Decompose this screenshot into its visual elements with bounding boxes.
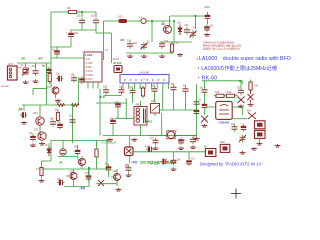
svg-text:100: 100 — [118, 15, 123, 19]
svg-text:JP→: JP→ — [59, 161, 65, 165]
wire U2 pin 4 stub — [139, 83, 141, 89]
wire U2 pin 7 stub — [156, 83, 158, 89]
ground g2 — [141, 55, 147, 58]
capacitor C24c electrolytic — [194, 110, 200, 112]
wire stub down crystal — [25, 63, 27, 67]
svg-text:4 VCC: 4 VCC — [86, 70, 93, 73]
capacitor C16 — [70, 120, 76, 122]
svg-text:JP2: JP2 — [120, 38, 125, 42]
origin marker — [231, 189, 241, 199]
capacitor C21 — [171, 87, 177, 89]
capacitor C27 — [238, 90, 244, 92]
capacitor C42 electrolytic — [186, 160, 192, 162]
wire C3b bottom — [56, 56, 58, 58]
capacitor C6 electrolytic — [205, 15, 211, 17]
svg-text:104: 104 — [103, 87, 108, 89]
junction y16 x195 — [194, 15, 196, 17]
ground below Q4 — [39, 142, 45, 145]
ground c39 — [178, 147, 184, 150]
ground x196 end — [194, 137, 200, 140]
svg-text:10u: 10u — [19, 109, 24, 111]
capacitor C17 — [103, 90, 109, 92]
ground under C36 — [126, 174, 132, 177]
svg-text:LA16: LA16 — [85, 53, 93, 57]
wire Q3 collector — [39, 105, 41, 117]
wire T1 bottom — [140, 125, 142, 136]
svg-text:104: 104 — [133, 41, 138, 45]
svg-text:VOL 50kΩ(A): VOL 50kΩ(A) — [101, 141, 117, 145]
resistor R9 — [216, 94, 224, 97]
junction y21 x174 — [173, 20, 175, 22]
ground BFO left — [202, 124, 208, 127]
wire vertical x100 — [99, 89, 101, 136]
wire C3b top — [56, 47, 58, 49]
svg-text:10u: 10u — [56, 74, 61, 76]
wire U2 pin 1 stub — [122, 83, 124, 89]
resistor R6 — [141, 88, 144, 96]
capacitor C37 electrolytic — [148, 147, 150, 153]
wire y16 to supply — [206, 15, 208, 17]
svg-text:PH: PH — [18, 68, 21, 70]
wire C34 top — [88, 169, 90, 174]
svg-text:1SS: 1SS — [177, 23, 182, 25]
capacitor C7 — [184, 30, 190, 32]
svg-text:↓LA1600 double super radio wit: ↓LA1600 double super radio with BFO — [196, 56, 291, 62]
wire speaker out rail — [133, 151, 205, 153]
svg-text:JP-20A: JP-20A — [113, 62, 122, 65]
wire stub x154 down — [154, 93, 156, 101]
wire BFO right column — [241, 81, 243, 84]
wire filter out — [232, 106, 242, 108]
diode D1 — [178, 25, 182, 36]
resistor R2v — [48, 74, 51, 82]
svg-text:103: 103 — [237, 88, 242, 90]
svg-text:104: 104 — [74, 31, 79, 35]
wire y169 rail — [42, 168, 108, 170]
svg-text:LA1600: LA1600 — [139, 71, 150, 75]
capacitor C20 — [152, 89, 158, 91]
wire vertical x126 — [125, 98, 127, 118]
capacitor C11 electrolytic — [58, 76, 60, 82]
svg-text:10k: 10k — [215, 90, 220, 94]
ground under D2 — [248, 103, 254, 106]
svg-text:♪PO: ♪PO — [131, 161, 138, 165]
diode D4 — [98, 180, 104, 186]
svg-text:104: 104 — [152, 86, 157, 88]
wire BFO top rail — [202, 80, 242, 82]
svg-text:472: 472 — [150, 138, 155, 140]
capacitor C40 — [190, 139, 196, 141]
svg-text:?: ? — [143, 78, 145, 82]
wire x78 vertical — [77, 77, 79, 105]
ground below X1 — [23, 81, 29, 84]
wire x195 down — [195, 16, 197, 29]
wire T1 top stub — [140, 101, 142, 107]
wire U1 stub b — [92, 82, 94, 89]
wire U2 pin 2 stub — [128, 83, 130, 89]
capacitor C41 — [171, 160, 177, 162]
svg-text:223: 223 — [171, 84, 176, 86]
junction y104 x196 — [195, 103, 197, 105]
svg-text:X1: X1 — [199, 100, 203, 102]
svg-text:JP-IF: JP-IF — [99, 96, 106, 99]
connector JP7 — [220, 144, 230, 152]
wire stub to C1 — [81, 12, 83, 17]
svg-text:+: + — [199, 104, 201, 106]
wire below C3 — [70, 39, 72, 48]
transformer T3 — [167, 131, 174, 138]
svg-text:47u: 47u — [210, 26, 215, 28]
svg-text:2SC: 2SC — [47, 87, 52, 89]
wire T3 left — [148, 135, 167, 137]
wire horizontal y103 — [96, 102, 127, 104]
svg-text:♪PO: ♪PO — [79, 187, 86, 191]
resistor R8 — [249, 82, 252, 90]
wire vertical x103 — [103, 21, 105, 60]
junction y12 x82 — [81, 11, 83, 13]
svg-text:6 OUT: 6 OUT — [86, 78, 94, 81]
filter U3 CSB455 — [216, 101, 233, 119]
svg-text:2 OSC: 2 OSC — [86, 62, 93, 65]
trimmer VC5 crossed — [238, 97, 245, 104]
wire horizontal y118 — [115, 117, 134, 119]
svg-text:10k: 10k — [254, 86, 259, 88]
junction BFO rail — [239, 80, 241, 82]
wire Q5a base — [77, 157, 79, 161]
wire U2 pin 5 stub — [145, 83, 147, 89]
transistor Q5 first AF — [79, 159, 86, 166]
svg-text:短波帯で使うには上々の感度かと.: 短波帯で使うには上々の感度かと. — [203, 47, 242, 51]
capacitor C32 electrolytic — [75, 150, 81, 152]
junction at x152 — [151, 20, 153, 22]
wire Q2 base — [51, 85, 52, 87]
wire supply top — [207, 12, 209, 15]
connector J1 — [8, 66, 18, 80]
ground below C13 — [21, 121, 27, 124]
resistor R12 — [95, 149, 98, 157]
capacitor C1 — [79, 20, 85, 22]
capacitor C26 electrolytic — [202, 104, 208, 106]
capacitor C24 electrolytic — [110, 120, 116, 122]
svg-text:T: T — [176, 131, 178, 133]
wire stub x173 down — [173, 92, 175, 111]
ground below Q2 — [55, 99, 61, 102]
svg-text:JP-2A: JP-2A — [113, 58, 120, 61]
wire audio top rail — [51, 140, 107, 142]
capacitor C33 electrolytic — [59, 180, 61, 186]
ground under Q7 — [116, 188, 122, 191]
svg-text:1 IN: 1 IN — [86, 58, 91, 61]
speaker jack J2 — [125, 147, 134, 156]
wire filter out v — [241, 107, 243, 115]
wire horizontal y135 — [103, 135, 197, 137]
junction audio rail2 — [88, 167, 90, 169]
wire Q7 collector — [116, 169, 118, 174]
wire horizontal y16 — [170, 15, 206, 17]
wire Q1 collector up — [169, 16, 171, 26]
wire y105 rail — [22, 104, 78, 106]
capacitor C13 electrolytic — [22, 112, 24, 118]
svg-text:103: 103 — [200, 88, 205, 90]
transistor Q7 output — [114, 174, 121, 181]
wire horizontal to RF amp — [51, 46, 71, 48]
junction y88 x72 — [71, 104, 73, 106]
capacitor C19 — [130, 90, 136, 92]
svg-text:103: 103 — [77, 16, 82, 18]
svg-text:10k: 10k — [227, 90, 232, 94]
svg-text:2SC: 2SC — [161, 24, 166, 26]
svg-text:Designed by "RADIO KITS IN: Designed by "RADIO KITS IN JA" — [200, 162, 263, 167]
capacitor C29 — [232, 127, 238, 129]
ground under C31 — [30, 144, 36, 147]
wire C35 bottom — [108, 172, 110, 177]
wire down to jumper — [111, 33, 113, 63]
wire into LA1600 block — [51, 57, 84, 59]
capacitor C25 — [202, 90, 208, 92]
capacitor C38 — [153, 140, 159, 142]
ground bottom 2 — [275, 144, 281, 147]
inductor L0 filled — [119, 19, 128, 23]
wire stub x185 down — [185, 93, 187, 110]
wire vertical x152 — [151, 21, 153, 42]
ground mid rail — [107, 138, 113, 141]
junction audio rail — [106, 139, 108, 141]
wire y119 under filter — [232, 118, 247, 120]
wire horizontal y88 left — [33, 88, 47, 90]
wire ground bus y53 — [126, 52, 172, 54]
ground g3 — [159, 55, 165, 58]
svg-text:X1: X1 — [21, 65, 25, 67]
wire x46 vertical — [46, 63, 48, 105]
wire T3 right — [175, 135, 196, 137]
trimmer VC4 — [239, 135, 246, 142]
wire stub to C2 — [95, 12, 97, 17]
svg-text:2SC: 2SC — [33, 111, 38, 115]
wire y161 stub — [42, 160, 52, 162]
svg-text:TC: TC — [193, 28, 196, 30]
wire vertical x174 — [173, 21, 175, 42]
wire vertical x72 — [72, 105, 74, 143]
junction — [81, 11, 83, 13]
wire x96 to x111 — [96, 32, 112, 34]
capacitor C39 electrolytic — [178, 139, 184, 141]
capacitor C3b electrolytic — [54, 50, 60, 52]
diode D3 — [47, 146, 51, 156]
capacitor C10b — [71, 78, 77, 80]
svg-text:JP1: JP1 — [21, 57, 26, 61]
svg-text:AF60調: AF60調 — [150, 162, 159, 166]
transistor Q2 — [52, 87, 59, 94]
svg-text:JP601: JP601 — [145, 121, 153, 124]
wire VR stub — [62, 141, 64, 149]
svg-text:・LA1600の作動上限は25MHz近傍: ・LA1600の作動上限は25MHz近傍 — [196, 64, 277, 72]
wire R12 bottom — [96, 160, 98, 170]
ground under R11 — [39, 179, 45, 182]
resistor R13 horizontal — [57, 103, 65, 106]
svg-text:JP2: JP2 — [38, 57, 43, 61]
wire U1 stub c — [97, 82, 99, 89]
svg-text:22p: 22p — [185, 25, 190, 27]
wire C41 stub — [173, 152, 175, 158]
ground under T2 — [257, 142, 263, 145]
wire Q6a base — [66, 175, 70, 177]
diode pair D2 — [248, 91, 254, 103]
svg-text:+: + — [66, 32, 68, 35]
svg-text:10k: 10k — [105, 50, 109, 52]
resistor R1 — [69, 10, 77, 13]
svg-text:2SC: 2SC — [113, 171, 118, 173]
wire Q6a collector — [73, 169, 75, 173]
ground BFO mid — [238, 105, 244, 108]
wire top horizontal run — [51, 11, 96, 13]
svg-text:BC: BC — [42, 66, 46, 68]
ground under VC4 — [240, 151, 246, 154]
wire x33 stub — [32, 89, 34, 96]
transistor Q1 — [164, 26, 172, 34]
svg-text:103: 103 — [119, 87, 124, 89]
capacitor C30 electrolytic — [241, 126, 247, 128]
crystal X1 — [22, 68, 29, 76]
wire BFO mid column — [240, 81, 242, 88]
wire C32 stub — [77, 145, 79, 148]
resistor R7 trimmer — [151, 104, 160, 114]
svg-text:3 MIX: 3 MIX — [86, 66, 93, 69]
wire Q3 emitter — [39, 125, 41, 135]
capacitor C2 — [93, 20, 99, 22]
svg-text:TC: TC — [147, 42, 150, 44]
wire x118 pcap stub — [117, 109, 119, 118]
wire horizontal y110 — [160, 109, 197, 111]
svg-text:473: 473 — [130, 87, 135, 89]
capacitor C15 electrolytic — [57, 124, 63, 126]
ground under C41 — [171, 168, 177, 171]
wire Q5a collector — [81, 156, 83, 159]
op-amp U1 LA1600 table — [84, 52, 102, 82]
capacitor C4 — [33, 71, 39, 73]
svg-text:47u: 47u — [191, 159, 196, 161]
transistor Q4 — [38, 132, 46, 140]
op-amp U2 LA1600 IC body — [120, 75, 169, 84]
jumper JP3 — [114, 66, 122, 73]
svg-text:PHONE: PHONE — [1, 86, 9, 88]
capacitor C5 electrolytic — [204, 26, 210, 28]
capacitor C8 — [127, 44, 133, 46]
resistor R10 — [227, 94, 235, 97]
capacitor C9 — [159, 44, 165, 46]
svg-text:103: 103 — [91, 16, 96, 18]
wire Q5a emitter — [81, 165, 83, 169]
wire Q2 emitter — [55, 94, 57, 98]
resistor R14 horizontal — [72, 103, 80, 106]
wire x113 pcap stub — [112, 126, 114, 136]
svg-text:104: 104 — [127, 41, 132, 43]
wire U2 pin 9 stub — [168, 83, 170, 89]
transistor Q3 — [36, 117, 44, 125]
wire from jack — [17, 62, 51, 64]
wire horizontal main y21 — [104, 20, 172, 22]
wire U2 pin 8 stub — [162, 83, 164, 89]
wire y184 rail — [96, 183, 116, 185]
transformer T2 box2 — [255, 130, 266, 138]
wire C42 stub — [188, 152, 190, 159]
capacitor C3 electrolytic — [68, 33, 74, 35]
wire U2 pin 6 stub — [151, 83, 153, 89]
svg-text:2SC: 2SC — [34, 130, 39, 132]
wire stub down C4 — [35, 63, 37, 68]
capacitor C31 electrolytic — [30, 136, 36, 138]
wire vertical x129 speaker — [129, 136, 131, 164]
svg-text:ANT: ANT — [8, 63, 13, 66]
capacitor C22 — [183, 89, 189, 91]
resistor R5 — [56, 113, 59, 121]
connector JP6 — [205, 149, 216, 157]
wire C13 stub — [23, 105, 25, 111]
ground at x180 — [177, 53, 183, 56]
capacitor C35 electrolytic — [106, 166, 112, 168]
ground c38 — [153, 147, 159, 150]
wire audio left vertical — [50, 141, 52, 162]
ground c40 — [190, 146, 196, 149]
wire under T2 — [259, 138, 261, 141]
capacitor C18 — [119, 90, 125, 92]
wire R12 top — [96, 141, 98, 147]
svg-text:104: 104 — [177, 160, 182, 162]
wire R11 hang — [41, 161, 43, 165]
wire BFO left column b — [204, 94, 206, 103]
wire audio mid vertical — [88, 169, 90, 187]
wire transistor Q1 base — [162, 21, 164, 25]
varactor X2 — [248, 113, 256, 120]
svg-text:+5V: +5V — [220, 140, 225, 144]
resistor R4 — [170, 44, 173, 52]
capacitor C10c electrolytic — [79, 78, 85, 80]
capacitor C36 — [126, 168, 132, 170]
svg-text:CSB455: CSB455 — [219, 121, 230, 125]
ground under T1 — [131, 138, 137, 141]
inductor L1 — [141, 18, 146, 23]
svg-text:5 GND: 5 GND — [86, 74, 94, 77]
resistor R11 — [40, 168, 43, 176]
wire supply link — [207, 21, 209, 25]
capacitor C23 electrolytic — [115, 103, 121, 105]
trimmer VC1 — [190, 31, 197, 38]
wire U2 pin 3 stub — [133, 83, 135, 89]
wire horizontal y42 — [160, 41, 192, 43]
capacitor C24b — [194, 102, 200, 104]
wire vertical x196 — [196, 84, 198, 137]
wire vertical bus left — [50, 12, 52, 86]
wire BFO left column c — [204, 109, 206, 115]
svg-text:1N: 1N — [45, 145, 48, 147]
capacitor C3c electrolytic — [46, 69, 52, 71]
wire stub x132 down — [132, 95, 134, 104]
capacitor C14 — [50, 122, 56, 124]
ground g1 — [127, 55, 133, 58]
wire below C1 — [81, 25, 83, 30]
trimmer VC2 — [141, 43, 148, 50]
svg-text:4.7k: 4.7k — [174, 43, 179, 45]
wire Q7 emitter — [116, 180, 118, 186]
capacitor C42h electrolytic — [162, 159, 164, 165]
svg-text:9V: 9V — [204, 146, 207, 149]
capacitor C34 electrolytic — [86, 175, 92, 177]
ground below C4 — [33, 80, 39, 83]
svg-text:100u: 100u — [180, 140, 186, 142]
wire D3 stub — [48, 143, 50, 146]
wire vertical x107 — [106, 141, 108, 170]
svg-text:455: 455 — [247, 111, 252, 113]
wire audio bottom rail — [64, 186, 89, 188]
